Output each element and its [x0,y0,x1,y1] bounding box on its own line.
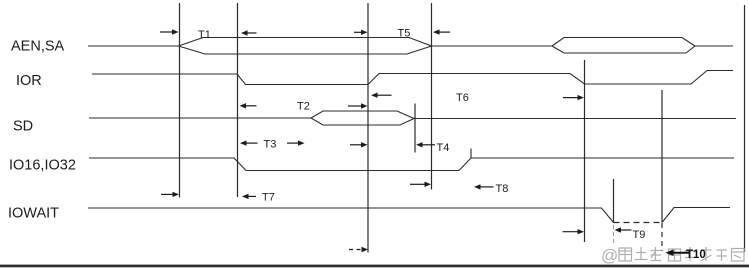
watermark CJK glyph 3 [651,247,662,261]
arrow T6 left [371,93,392,98]
measurement tick for T4 x=415 [414,104,416,153]
gridline V1 x=179.5 [179,3,181,198]
wire SD lead-in [89,117,311,119]
svg-text:T3: T3 [264,139,277,151]
arrow T8 left [474,184,494,189]
wire AEN,SA bus eye 1 bottom [179,46,432,54]
arrow T5 left [433,29,450,34]
svg-text:T4: T4 [437,142,450,154]
wire AEN,SA mid segment [432,45,553,47]
svg-text:T5: T5 [398,28,411,40]
arrow T9 right [563,229,585,234]
wire SD bus eye bottom [311,118,414,125]
gridline V7 x=662 solid part [661,90,663,223]
gridline V4 x=431.5 [431,3,433,190]
watermark CJK glyph 7 [717,250,728,261]
arrow T2 right [348,103,368,108]
svg-text:T9: T9 [633,229,646,241]
svg-text:@: @ [601,246,618,265]
gridline V8 right edge x=744.5 [744,5,746,252]
watermark CJK glyph 8 [732,249,745,262]
svg-text:T6: T6 [456,92,469,104]
arrow T3 left [240,140,258,145]
svg-text:T2: T2 [297,101,310,113]
arrow T4 left [416,142,435,147]
watermark CJK glyph 5 [685,247,697,261]
svg-text:T7: T7 [262,191,275,203]
wire IO16,IO32 waveform [89,158,734,171]
arrow T3 right [287,140,305,145]
wire IOWAIT dashed low level [614,222,663,224]
svg-text:IO16,IO32: IO16,IO32 [9,158,76,174]
arrow T9 left [615,227,632,232]
watermark CJK glyph 1 [619,248,632,261]
arrow T7 left [242,194,256,199]
wire SD bus eye top [311,111,414,119]
wire AEN,SA bus eye 2 bottom [552,46,695,53]
svg-text:IOR: IOR [16,73,42,89]
arrow T8 leadin right [410,182,431,187]
svg-text:T8: T8 [496,183,509,195]
bottom separator bar [0,265,749,268]
arrow T4 leadin right [350,142,368,147]
svg-text:T1: T1 [198,29,211,41]
wire IOWAIT high and falling edge [88,208,614,223]
arrow T1 right [160,29,179,34]
svg-text:IOWAIT: IOWAIT [8,206,59,222]
wire AEN,SA bus eye 1 top [179,38,432,47]
gridline V7 dashed lower part [661,223,663,251]
arrow T6 right [563,95,584,100]
measurement stub at IO16 rising edge x=471 [470,149,472,159]
watermark CJK glyph 6 [701,247,712,261]
watermark CJK glyph 4 [669,249,681,261]
gridline V5 x=584.5 [584,60,586,242]
svg-text:AEN,SA: AEN,SA [11,39,65,55]
wire AEN,SA bus eye 2 top [552,38,695,47]
wire SD tail segment [414,118,736,120]
wire AEN,SA tail segment [695,45,733,47]
gridline V6 x=613.5 solid part [613,179,615,223]
wire AEN,SA lead-in [88,45,179,47]
wire IOWAIT rising edge and tail [662,208,730,223]
svg-text:SD: SD [13,119,33,135]
arrow T2 left [240,103,257,108]
gridline V3 x=368 [367,3,369,253]
watermark CJK glyph 2 [635,247,648,260]
dashed arrow at V3 bottom [349,247,368,252]
gridline V2 x=237.5 [237,3,239,197]
gridline V6 dashed lower part [613,225,615,243]
svg-text:T10: T10 [686,249,706,261]
arrow T5 right [354,30,368,35]
wire IOR waveform [92,71,733,85]
arrow T10 left (over watermark) [666,249,691,256]
arrow T7 right [161,192,179,197]
arrow T1 left [241,30,257,35]
